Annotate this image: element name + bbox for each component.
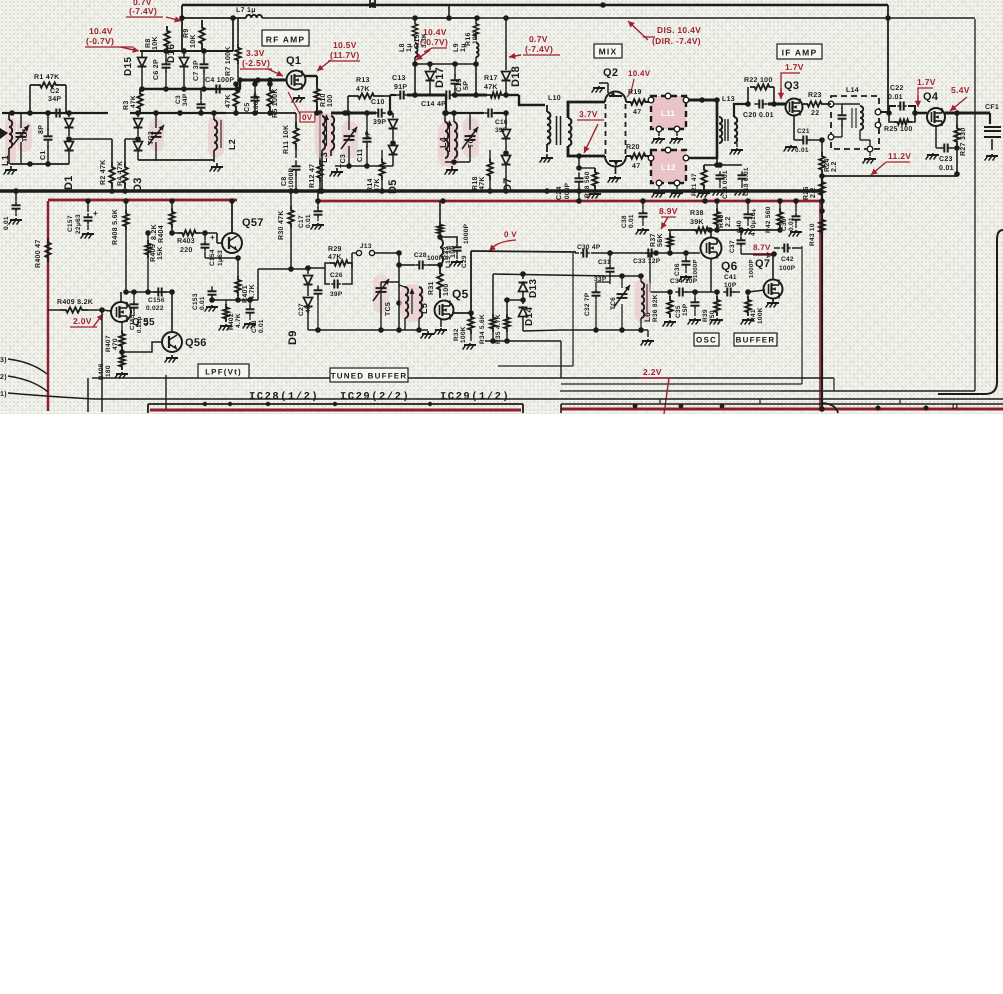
resistor R41: [740, 289, 764, 324]
svg-text:2.0V: 2.0V: [73, 316, 92, 326]
capacitor C14: [421, 91, 454, 109]
svg-text:1000P: 1000P: [692, 259, 699, 278]
ground: [697, 191, 710, 198]
ground: [730, 143, 743, 155]
inductor L4: [438, 110, 459, 167]
resistor R7: [225, 18, 241, 78]
IF transformer L13: [717, 96, 746, 143]
svg-text:4.7K: 4.7K: [235, 313, 242, 328]
capacitor C17: [298, 198, 323, 228]
ground: [450, 260, 463, 267]
svg-text:R38: R38: [690, 210, 704, 217]
capacitor C13: [392, 75, 409, 100]
wire: [568, 102, 605, 159]
ground: [926, 153, 939, 160]
ground: [311, 223, 324, 230]
trimmer TC6: [610, 276, 630, 330]
capacitor C7: [193, 51, 209, 89]
svg-text:L2: L2: [227, 139, 237, 150]
svg-text:Q5: Q5: [452, 287, 469, 301]
svg-text:TUNED BUFFER: TUNED BUFFER: [331, 372, 408, 381]
svg-text:C11: C11: [357, 149, 364, 162]
ground: [330, 168, 343, 177]
node: [85, 198, 825, 204]
svg-text:47K: 47K: [328, 254, 342, 261]
svg-text:R11 10K: R11 10K: [283, 125, 290, 154]
resistor R5: [267, 84, 279, 118]
transistor Q55: [102, 302, 155, 328]
resistor R17: [484, 75, 505, 98]
wire: [485, 338, 561, 378]
svg-text:3.3V: 3.3V: [246, 48, 265, 58]
wire: [503, 92, 545, 105]
ground: [205, 305, 218, 312]
svg-text:Q2: Q2: [603, 67, 618, 79]
svg-text:L12: L12: [661, 163, 676, 172]
svg-text:Q3: Q3: [784, 80, 799, 92]
wire: [412, 61, 479, 95]
wire: [258, 266, 308, 300]
svg-text:C19 0.01: C19 0.01: [722, 170, 729, 199]
wire: [138, 159, 214, 161]
svg-text:C15: C15: [456, 78, 463, 92]
svg-text:R40: R40: [718, 214, 725, 228]
svg-text:C37: C37: [729, 240, 736, 253]
IC block frame right: [561, 404, 1003, 413]
resistor R30: [278, 188, 294, 269]
resistor R403: [169, 230, 217, 254]
resistor R8: [145, 26, 170, 51]
wire: [888, 5, 927, 113]
svg-text:C31: C31: [598, 259, 611, 266]
svg-text:R30 47K: R30 47K: [278, 210, 285, 240]
svg-text:10P: 10P: [724, 282, 737, 289]
ground: [688, 318, 701, 325]
wire: [452, 92, 487, 98]
resistor R20: [626, 144, 650, 170]
ground: [789, 230, 802, 237]
svg-text:(-7.4V): (-7.4V): [525, 44, 553, 54]
svg-text:IC28(1/2): IC28(1/2): [249, 391, 319, 403]
svg-text:L4: L4: [438, 137, 448, 148]
wire: [689, 97, 720, 158]
svg-text:0.01: 0.01: [258, 319, 265, 333]
svg-text:TC1: TC1: [22, 128, 29, 142]
node: [633, 404, 929, 412]
wire IF box bottom: [819, 171, 960, 179]
svg-text:C3: C3: [175, 95, 182, 104]
svg-text:C153: C153: [192, 293, 199, 310]
svg-text:1000P: 1000P: [253, 92, 260, 113]
voltage note 1.7V b: [915, 77, 936, 107]
wire tank3 top: [443, 95, 484, 116]
wire: [822, 104, 888, 140]
svg-text:10.5V: 10.5V: [333, 40, 357, 50]
svg-text:R1 47K: R1 47K: [34, 74, 60, 81]
resistor R405: [145, 230, 164, 292]
voltage note 8.7V: [753, 243, 773, 258]
svg-text:C26: C26: [330, 272, 343, 279]
capacitor C28: [399, 252, 444, 270]
wire feedback: [650, 253, 672, 292]
wire top rail: [182, 2, 888, 8]
capacitor C41: [723, 274, 740, 297]
svg-text:C157: C157: [67, 215, 74, 232]
diode D9: [287, 265, 313, 345]
resistor R36: [652, 289, 673, 322]
wire tuned buffer bottom: [308, 327, 428, 333]
inductor L1: [0, 113, 16, 166]
svg-text:TC5: TC5: [385, 302, 392, 316]
svg-text:47: 47: [633, 109, 641, 116]
ceramic filter CF1: [984, 104, 1001, 150]
wire: [179, 5, 246, 52]
trimmer TC4: [462, 113, 479, 162]
svg-text:L7 1μ: L7 1μ: [236, 7, 256, 14]
svg-text:R9: R9: [183, 28, 190, 38]
svg-text:C32 7P: C32 7P: [584, 292, 591, 316]
svg-text:R409 8.2K: R409 8.2K: [57, 299, 93, 306]
svg-text:L14: L14: [846, 87, 859, 94]
svg-text:10.4V: 10.4V: [89, 26, 113, 36]
wire jog: [390, 95, 396, 113]
svg-text:15P: 15P: [682, 303, 689, 316]
svg-text:47K: 47K: [356, 86, 370, 93]
transistor Q1: [286, 55, 306, 90]
svg-text:0V: 0V: [302, 113, 313, 122]
resistor R35: [495, 297, 510, 344]
section label IF AMP: [777, 44, 822, 59]
inductor L3: [315, 113, 335, 163]
svg-text:R12 47: R12 47: [309, 164, 316, 188]
voltage note 0.7V b: [509, 34, 560, 59]
capacitor C18: [738, 167, 751, 196]
svg-text:Q4: Q4: [923, 91, 939, 103]
svg-text:C40: C40: [736, 220, 743, 233]
svg-text:R18: R18: [472, 176, 479, 190]
capacitor C10: [371, 99, 386, 126]
svg-text:2.2V: 2.2V: [643, 367, 662, 377]
svg-text:CF1: CF1: [985, 104, 999, 111]
ground: [741, 228, 754, 235]
inductor L9: [476, 43, 479, 64]
svg-text:2.2: 2.2: [831, 161, 838, 172]
wire: [603, 250, 656, 256]
transistor Q4: [923, 91, 945, 126]
ground: [985, 154, 998, 161]
capacitor C155: [129, 292, 150, 333]
svg-text:C20 0.01: C20 0.01: [743, 112, 774, 119]
svg-text:5P: 5P: [463, 81, 470, 90]
resistor R39: [702, 292, 720, 322]
wire: [122, 342, 162, 352]
inductor L10: [547, 95, 571, 152]
voltage note DIS: [628, 21, 701, 46]
ground: [636, 228, 649, 235]
wire: [69, 139, 112, 162]
svg-text:3.7V: 3.7V: [579, 109, 598, 119]
resistor R40: [714, 201, 732, 228]
svg-text:C39: C39: [781, 218, 788, 231]
resistor R15: [399, 20, 428, 52]
svg-text:TC4: TC4: [468, 134, 475, 148]
svg-text:100P: 100P: [779, 265, 796, 272]
wire bias rail: [140, 15, 236, 54]
svg-text:R19: R19: [628, 89, 642, 96]
svg-text:1000P: 1000P: [288, 167, 295, 188]
svg-text:(-7.4V): (-7.4V): [129, 6, 157, 16]
capacitor C38: [621, 201, 648, 228]
capacitor C24: [556, 156, 584, 203]
svg-text:0.022: 0.022: [146, 305, 164, 312]
svg-text:Q1: Q1: [286, 55, 301, 67]
resistor R29 loop: [325, 246, 352, 268]
svg-text:11.2V: 11.2V: [888, 151, 911, 161]
resistor R21: [691, 165, 707, 196]
wire thin enclosure bottom: [780, 390, 975, 392]
resistor R11: [283, 113, 299, 158]
svg-text:(11.7V): (11.7V): [330, 50, 360, 60]
capacitor C32: [584, 282, 610, 330]
resistor R12: [309, 113, 323, 189]
svg-text:39P: 39P: [330, 291, 343, 298]
trimmer TC5: [373, 275, 399, 330]
trimmer TC3: [340, 113, 358, 168]
svg-text:47K: 47K: [130, 95, 137, 108]
IC block frame left: [148, 404, 523, 413]
resistor R409: [48, 299, 105, 313]
wire: [88, 375, 166, 412]
svg-text:0.01: 0.01: [199, 296, 206, 310]
wire: [810, 137, 825, 143]
resistor R404: [151, 201, 175, 243]
wire osc tank bottom: [560, 327, 648, 337]
svg-text:BUFFER: BUFFER: [736, 336, 776, 345]
section label TUNED BUFFER: [330, 368, 408, 382]
svg-text:1μ: 1μ: [406, 43, 413, 52]
resistor R33: [437, 201, 457, 260]
resistor R2: [100, 159, 115, 188]
wire tank2 bottom: [335, 163, 393, 169]
trimmer TC1: [13, 113, 32, 164]
voltage note 10.4V c: [627, 69, 651, 97]
svg-text:C24: C24: [556, 186, 563, 200]
svg-text:1000P: 1000P: [463, 223, 470, 244]
ground: [292, 95, 305, 103]
svg-text:IF AMP: IF AMP: [782, 48, 818, 58]
section label MIX: [594, 44, 622, 58]
diode D3: [132, 113, 144, 192]
capacitor C16: [484, 109, 508, 135]
transistor Q57: [217, 201, 264, 253]
diode D14: [507, 300, 535, 331]
ground: [4, 166, 17, 175]
transistor Q3: [784, 80, 803, 116]
section label BUFFER: [734, 333, 777, 346]
svg-text:R2 47K: R2 47K: [100, 159, 107, 185]
wire: [92, 378, 975, 391]
pin stub: [660, 399, 958, 411]
svg-text:C34 10P: C34 10P: [670, 278, 698, 285]
wire: [322, 150, 331, 189]
svg-text:C36: C36: [674, 263, 681, 276]
svg-text:1.7V: 1.7V: [785, 62, 804, 72]
svg-text:R34 5.6K: R34 5.6K: [479, 314, 486, 344]
svg-text:C41: C41: [724, 274, 737, 281]
resistor R18: [472, 150, 493, 190]
capacitor C15: [451, 64, 471, 95]
capacitor C36: [674, 253, 699, 278]
svg-text:8.9V: 8.9V: [659, 206, 678, 216]
wire 0V line: [196, 81, 296, 116]
svg-text:D15: D15: [123, 57, 134, 76]
trimmer TC2: [148, 113, 164, 160]
svg-text:IC29(2/2): IC29(2/2): [340, 391, 410, 403]
voltage note 10.4V b: [416, 27, 448, 60]
ground: [434, 319, 447, 335]
capacitor C top: [370, 0, 375, 8]
svg-text:0.01: 0.01: [628, 214, 635, 228]
capacitor C20: [743, 100, 777, 120]
resistor R31: [428, 265, 450, 298]
svg-text:Q57: Q57: [242, 217, 264, 229]
IF transformer L11: [648, 93, 689, 132]
svg-text:0.7V: 0.7V: [529, 34, 548, 44]
resistor R3: [123, 89, 143, 113]
ground: [588, 192, 601, 199]
svg-text:Q 55: Q 55: [132, 317, 155, 328]
ground: [219, 324, 232, 331]
voltage note 3.7V: [577, 109, 604, 153]
inductor L5: [399, 284, 429, 330]
capacitor C8: [281, 160, 301, 189]
wire R15/L8 column top: [415, 5, 477, 21]
resistor R23: [803, 92, 826, 117]
resistor R36b top link: [645, 265, 656, 267]
ground: [421, 331, 434, 339]
svg-text:R7 100K: R7 100K: [225, 46, 232, 76]
svg-text:TC2: TC2: [148, 131, 155, 145]
wire: [125, 138, 138, 140]
inductor L7: [236, 7, 975, 21]
ground: [210, 163, 223, 172]
wire: [209, 297, 258, 303]
voltage note 0V: [288, 92, 315, 122]
voltage note 2.2V: [639, 367, 670, 414]
voltage note 0.7V: [126, 0, 181, 22]
capacitor C6: [153, 51, 171, 89]
resistor R4: [117, 139, 128, 188]
wire: [936, 126, 941, 148]
voltage note 10.5V: [317, 40, 360, 71]
svg-text:R10: R10: [320, 93, 327, 107]
svg-text:C4 100P: C4 100P: [205, 77, 234, 84]
resistor R34: [479, 274, 496, 344]
section label RF AMP: [262, 30, 309, 46]
ground: [735, 189, 748, 196]
ground: [165, 355, 178, 363]
svg-text:C2: C2: [50, 88, 60, 95]
svg-text:D1: D1: [63, 175, 75, 190]
svg-text:22μ63: 22μ63: [75, 214, 82, 234]
node: [203, 402, 432, 406]
capacitor 0.01 left edge: [3, 191, 21, 230]
ground: [766, 299, 779, 308]
capacitor C3: [175, 89, 206, 116]
node: [437, 262, 443, 268]
resistor R43: [809, 208, 825, 246]
svg-text:MIX: MIX: [599, 47, 618, 57]
svg-text:10.4V: 10.4V: [628, 69, 651, 78]
svg-text:R37: R37: [650, 233, 657, 247]
ground: [463, 343, 476, 350]
svg-text:R36 82K: R36 82K: [652, 294, 659, 322]
svg-text:47: 47: [632, 163, 640, 170]
vertical wire: [101, 310, 103, 399]
section label OSC: [694, 333, 719, 346]
wire gate feed: [139, 86, 241, 92]
svg-text:8.7V: 8.7V: [753, 243, 771, 252]
resistor R400: [35, 238, 51, 268]
transistor Q5: [435, 287, 469, 320]
ground: [652, 186, 683, 198]
ground: [663, 320, 676, 327]
wire CF1 loop: [938, 230, 1003, 394]
wire gate: [653, 250, 700, 256]
wire tank3 bottom: [445, 159, 470, 165]
capacitor C43: [246, 300, 266, 333]
svg-text:D14: D14: [524, 307, 535, 326]
resistor R37: [650, 230, 673, 256]
wire: [768, 103, 786, 106]
svg-text:C7 3P: C7 3P: [193, 60, 200, 81]
svg-text:C1: C1: [40, 150, 47, 160]
capacitor C156: [146, 288, 167, 313]
wire: [2, 112, 108, 114]
IF transformer L12: [648, 147, 689, 186]
svg-text:(-0.7V): (-0.7V): [86, 36, 114, 46]
svg-text:470μ16: 470μ16: [750, 212, 757, 236]
svg-text:TC6: TC6: [610, 297, 617, 310]
inductor L8: [415, 43, 418, 64]
IC label IC28(1/2): [249, 391, 319, 403]
transistor Q2 (dual-gate mixer): [599, 67, 626, 174]
svg-text:L13: L13: [722, 96, 735, 103]
svg-text:R24: R24: [824, 158, 831, 172]
resistor R24: [819, 140, 838, 174]
ground: [540, 154, 553, 163]
pin wire (1: [0, 390, 95, 399]
svg-text:3): 3): [0, 356, 7, 364]
resistor R406: [98, 352, 125, 380]
wire hook: [822, 403, 838, 413]
svg-text:8.2K: 8.2K: [151, 224, 158, 240]
svg-text:2): 2): [0, 373, 7, 381]
diode D5: [387, 113, 399, 194]
diode D7: [502, 113, 515, 192]
svg-text:C156: C156: [148, 297, 165, 304]
svg-text:C23: C23: [939, 156, 953, 163]
capacitor C31: [594, 253, 615, 283]
svg-text:C27: C27: [298, 303, 305, 316]
ground: [741, 318, 754, 325]
svg-text:56K: 56K: [657, 233, 664, 247]
wire red supply box top: [48, 191, 822, 201]
svg-text:C42: C42: [781, 256, 794, 263]
svg-text:C6 2P: C6 2P: [153, 59, 160, 80]
svg-text:R407: R407: [105, 335, 112, 352]
svg-text:R8: R8: [145, 38, 152, 48]
